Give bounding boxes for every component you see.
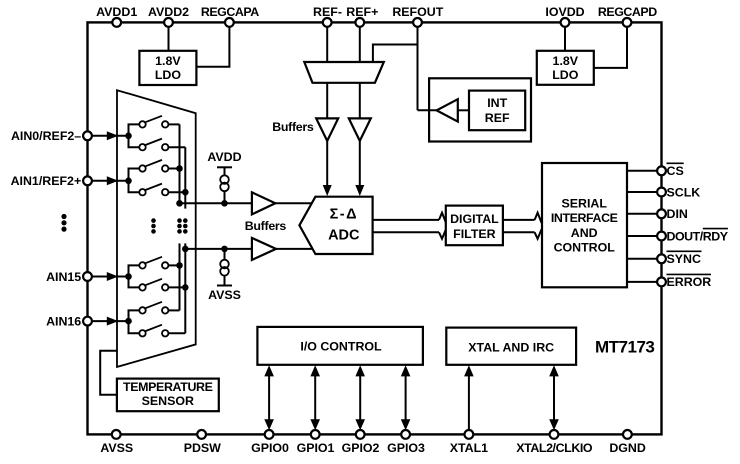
wire IOVDD to digital LDO <box>564 27 566 51</box>
input crosspoint mux outline <box>117 90 196 367</box>
svg-text:Σ-Δ: Σ-Δ <box>330 206 358 222</box>
svg-text:GPIO0: GPIO0 <box>251 441 289 455</box>
wire serial to DIN pin <box>627 213 657 215</box>
wire AIN15 into mux with arrow <box>92 272 132 281</box>
GPIO1 arrow <box>310 365 320 430</box>
wire serial to CS pin <box>627 170 657 172</box>
svg-text:AVSS: AVSS <box>208 288 241 302</box>
GPIO3 arrow <box>401 365 411 430</box>
wire AVDD bar to current source <box>224 167 226 175</box>
svg-text:1.8V: 1.8V <box>553 54 579 68</box>
svg-text:AVDD: AVDD <box>207 150 241 164</box>
switch row 6 <box>139 279 168 291</box>
wire current source to output wire 1 <box>221 191 228 206</box>
wire REFOUT branch to reference mux <box>373 45 418 63</box>
svg-text:AIN0/REF2–: AIN0/REF2– <box>11 129 81 143</box>
AVSS rail bar <box>217 285 232 287</box>
wire mux to ref buffer 2 <box>359 83 361 119</box>
switch row 1 <box>139 116 168 128</box>
svg-text:I/O CONTROL: I/O CONTROL <box>300 339 382 353</box>
signal buffer 2 triangle <box>252 238 276 260</box>
wire serial to SCLK pin <box>627 191 657 193</box>
wire AVDD2 to analog LDO <box>168 27 170 51</box>
pin REFOUT <box>392 5 443 27</box>
svg-text:AVSS: AVSS <box>100 441 133 455</box>
reference mux trapezoid <box>304 62 384 83</box>
wire row5 to bus1 <box>168 262 182 269</box>
bus1 upper segment <box>176 124 183 206</box>
switch row 5 <box>139 257 168 269</box>
svg-text:ADC: ADC <box>328 227 360 243</box>
wire current source to AVSS bar <box>224 276 226 286</box>
pin XTAL1 <box>450 430 488 455</box>
pin XTAL2/CLKIO <box>516 430 593 455</box>
svg-text:AIN16: AIN16 <box>46 315 81 329</box>
wire mux to ref buffer 1 <box>326 83 328 119</box>
svg-text:GPIO1: GPIO1 <box>297 441 335 455</box>
svg-text:XTAL2/CLKIO: XTAL2/CLKIO <box>516 441 593 455</box>
svg-text:PDSW: PDSW <box>184 441 221 455</box>
int ref outer box <box>429 78 531 141</box>
XTAL1 arrow <box>464 365 474 430</box>
ref buffer 2 triangle <box>349 118 371 140</box>
bus1 lower segment <box>179 243 181 310</box>
regulator 1.8V LDO (analog) <box>139 51 196 85</box>
svg-text:REGCAPA: REGCAPA <box>201 5 259 19</box>
wire AIN16 into mux with arrow <box>92 317 132 326</box>
svg-text:AND: AND <box>571 226 598 240</box>
svg-text:FILTER: FILTER <box>453 227 495 241</box>
chip border <box>88 22 662 434</box>
wire row4 to bus2 <box>168 189 188 196</box>
svg-text:Buffers: Buffers <box>245 219 287 233</box>
current source I2 <box>220 260 229 276</box>
svg-text:XTAL1: XTAL1 <box>450 441 488 455</box>
wire buffer 1 to ADC <box>275 202 312 204</box>
svg-text:DGND: DGND <box>609 441 646 455</box>
pin PDSW <box>184 430 221 455</box>
svg-text:ERROR: ERROR <box>667 275 712 289</box>
wire AIN15 branches <box>129 265 140 287</box>
wire buffer 2 to ADC <box>276 248 313 250</box>
svg-text:AVDD2: AVDD2 <box>148 5 189 19</box>
wire REF- to reference mux <box>326 27 328 62</box>
wire serial to ERROR pin <box>627 281 657 283</box>
wire serial to SYNC pin <box>627 258 657 260</box>
svg-text:GPIO2: GPIO2 <box>342 441 380 455</box>
bus2 upper segment <box>184 147 186 208</box>
bus arrow into digital filter <box>439 213 446 239</box>
wire row6 to bus2 <box>168 284 188 291</box>
pin DGND <box>609 430 646 455</box>
int ref amp triangle <box>437 99 458 121</box>
GPIO2 arrow <box>355 365 365 430</box>
ref buffer 1 triangle <box>316 118 338 140</box>
svg-text:AIN15: AIN15 <box>46 270 81 284</box>
svg-text:SYNC: SYNC <box>667 252 701 266</box>
svg-text:REF+: REF+ <box>346 5 378 19</box>
wire AIN1 branches <box>129 169 140 193</box>
wire output wire 2 to current source I2 <box>221 246 228 260</box>
wire REFOUT down to int ref amp <box>417 27 419 110</box>
sigma-delta ADC block <box>299 197 372 254</box>
svg-text:INT: INT <box>487 96 507 110</box>
svg-text:MT7173: MT7173 <box>595 337 654 356</box>
wire REGCAPA to analog LDO <box>196 27 229 67</box>
pin AIN16 <box>46 315 92 329</box>
current source I1 <box>220 175 229 191</box>
pin GPIO0 <box>251 430 289 455</box>
svg-text:LDO: LDO <box>155 68 182 82</box>
pin AIN15 <box>46 270 92 284</box>
wire mux output 2 to buffer 2 <box>185 248 252 250</box>
pin REF+ <box>346 5 378 27</box>
serial interface and control box <box>542 163 627 287</box>
pin REGCAPA <box>201 5 259 27</box>
wire ref buffer 1 to ADC with arrow <box>323 141 332 196</box>
svg-text:REF: REF <box>485 111 510 125</box>
regulator 1.8V LDO (digital) <box>537 51 594 85</box>
svg-text:DIGITAL: DIGITAL <box>450 212 499 226</box>
svg-text:SCLK: SCLK <box>667 185 701 199</box>
svg-text:1.8V: 1.8V <box>155 54 181 68</box>
svg-text:REGCAPD: REGCAPD <box>598 5 657 19</box>
pin AIN0/REF2- <box>11 129 92 143</box>
wire AIN1 into mux with arrow <box>92 176 132 185</box>
svg-text:SENSOR: SENSOR <box>142 394 194 408</box>
pin SCLK <box>657 185 700 199</box>
svg-text:CS: CS <box>667 164 684 178</box>
pin AVSS <box>100 430 133 455</box>
bus2 lower segment <box>182 243 189 333</box>
svg-text:IOVDD: IOVDD <box>545 5 584 19</box>
INT REF box <box>469 91 525 131</box>
pin DOUT/RDY <box>657 229 729 244</box>
svg-text:XTAL AND IRC: XTAL AND IRC <box>468 340 554 354</box>
bus arrow into serial interface <box>535 213 542 239</box>
pin GPIO3 <box>387 430 425 455</box>
GPIO0 arrow <box>264 365 274 430</box>
wire row2 to bus2 <box>168 146 185 148</box>
wire mux to temperature sensor <box>100 351 117 395</box>
svg-text:REF-: REF- <box>313 5 342 19</box>
pin GPIO1 <box>297 430 335 455</box>
pin GPIO2 <box>342 430 380 455</box>
pin ERROR <box>657 274 711 289</box>
pin AVDD1 <box>96 5 137 27</box>
pin SYNC <box>657 251 701 266</box>
pin REGCAPD <box>598 5 657 27</box>
signal buffer 1 triangle <box>252 192 275 214</box>
wire row8 to bus2 <box>168 332 185 334</box>
svg-text:AVDD1: AVDD1 <box>96 5 137 19</box>
XTAL2 arrow <box>549 365 559 430</box>
wire serial to DOUT/RDY pin <box>627 235 657 237</box>
svg-text:DOUT/RDY: DOUT/RDY <box>667 229 729 243</box>
wire REFOUT to int ref amp tip <box>418 109 438 111</box>
mux ellipsis dots <box>151 218 187 233</box>
wire row3 to bus1 <box>168 165 182 172</box>
svg-text:SERIAL: SERIAL <box>561 197 607 211</box>
AVDD rail bar <box>217 166 232 168</box>
svg-text:Buffers: Buffers <box>272 120 314 134</box>
pin AIN1/REF2+ <box>11 174 92 188</box>
digital filter box <box>446 206 503 246</box>
svg-text:DIN: DIN <box>667 207 688 221</box>
wire AIN0 into mux with arrow <box>92 131 132 140</box>
wire mux output 1 to buffer 1 <box>180 202 252 204</box>
filter output bus lines <box>503 220 535 232</box>
temperature sensor box <box>117 379 219 412</box>
pin AVDD2 <box>148 5 189 27</box>
wire ref buffer 2 to ADC with arrow <box>355 141 364 196</box>
pin IOVDD <box>545 5 584 27</box>
switch row 4 <box>139 184 168 196</box>
svg-text:CONTROL: CONTROL <box>554 240 616 254</box>
ADC output bus lines <box>373 220 439 232</box>
svg-text:INTERFACE: INTERFACE <box>551 211 618 225</box>
wire AIN0 branches <box>129 124 140 147</box>
switch row 3 <box>139 160 168 172</box>
pin DIN <box>657 207 688 221</box>
io control box <box>257 327 423 365</box>
pin REF- <box>313 5 342 27</box>
svg-text:AIN1/REF2+: AIN1/REF2+ <box>11 174 82 188</box>
switch row 2 <box>139 139 168 151</box>
switch row 8 <box>139 325 168 337</box>
wire amp to INT REF box <box>458 109 469 111</box>
wire row7 to bus1 <box>168 309 179 311</box>
svg-text:GPIO3: GPIO3 <box>387 441 425 455</box>
svg-text:TEMPERATURE: TEMPERATURE <box>123 380 213 394</box>
switch row 7 <box>139 302 168 314</box>
wire AIN16 branches <box>129 310 140 333</box>
svg-text:REFOUT: REFOUT <box>392 5 443 19</box>
pin CS <box>657 163 684 178</box>
xtal and irc box <box>446 328 576 365</box>
ellipsis left AIN <box>61 214 66 232</box>
svg-text:LDO: LDO <box>552 68 579 82</box>
wire REF+ to reference mux <box>359 27 361 62</box>
wire REGCAPD to digital LDO <box>594 27 627 68</box>
wire row1 to bus1 <box>168 123 179 125</box>
